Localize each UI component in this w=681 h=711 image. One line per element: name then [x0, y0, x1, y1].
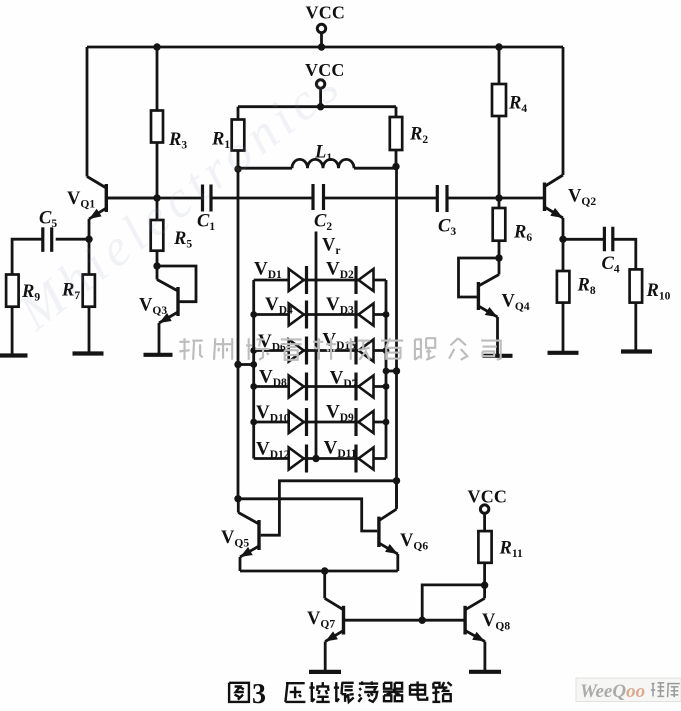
wire C1 left: [105, 197, 108, 200]
diode VD8: [289, 376, 304, 398]
ground R9: [0, 353, 28, 357]
wire VQ5 base jog from right column: [261, 481, 397, 535]
resistor R9: [6, 275, 19, 307]
node matrix row 3 left: [250, 347, 257, 354]
node matrix row 3 right: [383, 347, 390, 354]
wire matrix row 3: [254, 349, 386, 352]
diode VD6: [289, 340, 304, 362]
node matrix row 2 left: [250, 311, 257, 318]
diode VD3: [359, 304, 374, 326]
wire right tank column: [395, 167, 398, 508]
wire matrix row 2: [254, 313, 386, 316]
ground VQ8: [469, 670, 501, 674]
ground R8: [548, 351, 579, 355]
wire C1 to C2: [211, 197, 313, 200]
resistor R4: [492, 84, 506, 116]
node Vr bottom junction: [312, 455, 319, 462]
wire VQ2 base: [499, 197, 545, 200]
wire emitter bus: [240, 570, 398, 573]
capacitor C2: [311, 184, 314, 210]
transistor VQ8 collector: [465, 598, 485, 610]
diode VD13: [359, 340, 374, 362]
capacitor C3: [436, 185, 439, 212]
transistor VQ8 base bar: [463, 606, 466, 635]
node R4 top: [495, 43, 502, 50]
node junction VCC2-rail: [317, 103, 324, 110]
transistor VQ3 emitter: [159, 312, 178, 323]
node Vr stub: [315, 232, 318, 459]
wire top rail: [87, 46, 563, 49]
wire VQ6 base jog from left column: [238, 499, 377, 531]
wire C3 to R4 node: [447, 197, 499, 200]
transistor VQ4 base bar: [477, 282, 480, 310]
capacitor C1: [201, 185, 204, 212]
wire R8 to ground: [562, 303, 565, 352]
wire VQ4 collector-base tie box: [459, 258, 500, 297]
transistor VQ6 collector: [379, 509, 397, 520]
node R11-VQ8 junction: [481, 582, 488, 589]
wire bus to VQ7 collector: [323, 570, 326, 573]
wire C2 to C3: [324, 197, 438, 200]
ground VQ3: [144, 353, 173, 357]
wire R11 to node: [483, 563, 486, 585]
wire VCC2 rail: [238, 105, 396, 108]
transistor VQ1 emitter: [89, 208, 106, 219]
node matrix row 5 left: [250, 419, 257, 426]
transistor VQ6 emitter: [379, 543, 398, 554]
diode VD7: [359, 376, 374, 398]
diode VD4: [289, 304, 304, 326]
wire C4 to R10: [613, 239, 636, 269]
svg-text:VCC: VCC: [306, 3, 346, 23]
wire VCC2 to R1: [237, 107, 240, 120]
wire R10 to ground: [634, 303, 637, 351]
resistor R10: [630, 269, 643, 302]
wire VQ3 collector-base tie box: [157, 266, 196, 302]
wire R9 to ground: [11, 307, 14, 355]
inductor L1: [238, 167, 292, 170]
diode VD12: [289, 448, 304, 470]
node matrix row 4 left: [250, 383, 257, 390]
ground VQ7: [309, 670, 341, 674]
transistor VQ2 base bar: [543, 183, 546, 212]
resistor R3: [151, 111, 163, 143]
node R3 top: [153, 43, 160, 50]
caption title: [286, 682, 305, 684]
node R4-R6-base junction: [495, 194, 502, 201]
wire emitter to R8: [562, 239, 565, 271]
transistor VQ4 collector: [478, 275, 499, 287]
transistor VQ5 emitter: [240, 546, 259, 557]
wire VQ7-VQ8 base link: [344, 619, 466, 622]
diode VD1: [289, 269, 304, 291]
svg-text:VCC: VCC: [468, 487, 508, 507]
wire R3 to base node: [156, 143, 159, 199]
node matrix row 5 right: [383, 419, 390, 426]
wire R5 to VQ3 node: [156, 251, 159, 266]
wire matrix left stub: [238, 363, 254, 366]
diode VD2: [359, 269, 374, 291]
wire matrix row 4: [254, 385, 386, 388]
wire node to R5: [156, 198, 159, 220]
wire matrix right stub: [386, 370, 397, 373]
node matrix row 2 right: [383, 311, 390, 318]
capacitor C5: [41, 227, 44, 252]
transistor VQ7 base bar: [342, 606, 345, 635]
wire emitter to C4: [563, 238, 604, 241]
wire C5 to R9: [12, 239, 43, 274]
node VQ2 emitter junction: [559, 236, 566, 243]
wire left tank column: [237, 169, 240, 499]
transistor VQ5 base bar: [257, 520, 260, 550]
ground VQ4: [483, 354, 513, 358]
node R2-L1 junction: [392, 163, 399, 170]
node R5-VQ3 junction: [153, 262, 160, 269]
transistor VQ7 emitter: [325, 631, 343, 642]
wire emitter to C5: [56, 238, 89, 241]
node emitter bus junction: [321, 567, 328, 574]
transistor VQ2 emitter: [545, 207, 564, 218]
node junction VCC1-rail: [318, 43, 325, 50]
wire VQ1 base: [106, 197, 157, 200]
transistor VQ8 emitter: [465, 631, 485, 642]
node base link junction: [419, 617, 426, 624]
transistor VQ3 base bar: [176, 287, 179, 316]
wire node to R6: [498, 198, 501, 208]
transistor VQ3 collector: [157, 280, 178, 292]
wire matrix row 5: [254, 421, 386, 424]
transistor VQ6 base bar: [377, 517, 380, 547]
watermark company name: [179, 341, 189, 343]
ground R7: [73, 351, 104, 355]
wire R6 to VQ4 node: [498, 241, 501, 258]
ground R10: [621, 349, 652, 353]
transistor VQ2 collector: [545, 175, 564, 187]
wire emitter to R7: [88, 239, 91, 274]
diode VD9: [359, 411, 374, 433]
wire rail to R4: [498, 47, 501, 84]
wire matrix row 1: [254, 279, 386, 282]
node right stub ends: [383, 368, 390, 375]
transistor VQ7 collector: [325, 598, 344, 610]
transistor VQ5 collector: [238, 513, 259, 525]
wire matrix row 6: [254, 457, 386, 460]
transistor VQ4 emitter: [478, 306, 497, 317]
watermark weeqoo box: [576, 678, 681, 702]
node right column mid: [393, 477, 400, 484]
resistor R11: [478, 531, 491, 563]
resistor R8: [557, 271, 570, 303]
resistor R7: [83, 275, 95, 307]
resistor R5: [151, 220, 164, 251]
wire matrix left rail: [252, 280, 255, 459]
caption figure number: [229, 683, 249, 702]
wire R1 to L1 node: [237, 151, 240, 170]
wire VCC2 to R2: [395, 107, 398, 117]
node VQ1 emitter junction: [85, 236, 92, 243]
wire R4 to base node: [498, 116, 501, 198]
svg-text:WeeQoo: WeeQoo: [580, 681, 645, 702]
node R1-L1 junction: [234, 165, 241, 172]
wire rail to R3: [156, 47, 159, 111]
transistor VQ1 collector: [87, 177, 106, 189]
wire base to collector tie jog: [422, 585, 484, 620]
diode VD10: [289, 411, 304, 433]
node left column bottom: [234, 495, 241, 502]
node matrix row 4 right: [383, 383, 390, 390]
node R6-VQ4 junction: [495, 254, 502, 261]
wire R2 to L1 node: [395, 150, 398, 167]
node base-R3-R5 junction: [153, 194, 160, 201]
resistor R2: [390, 117, 402, 150]
diode VD11: [359, 448, 374, 470]
resistor R6: [493, 208, 506, 241]
svg-text:3: 3: [252, 679, 266, 710]
node left stub ends: [234, 361, 241, 368]
wire matrix right rail: [385, 280, 388, 459]
transistor VQ1 base bar: [105, 184, 108, 212]
resistor R1: [232, 120, 245, 151]
capacitor C4: [603, 227, 606, 252]
wire R7 to ground: [88, 307, 91, 353]
wire rail corner to VQ2 collector: [562, 46, 565, 49]
